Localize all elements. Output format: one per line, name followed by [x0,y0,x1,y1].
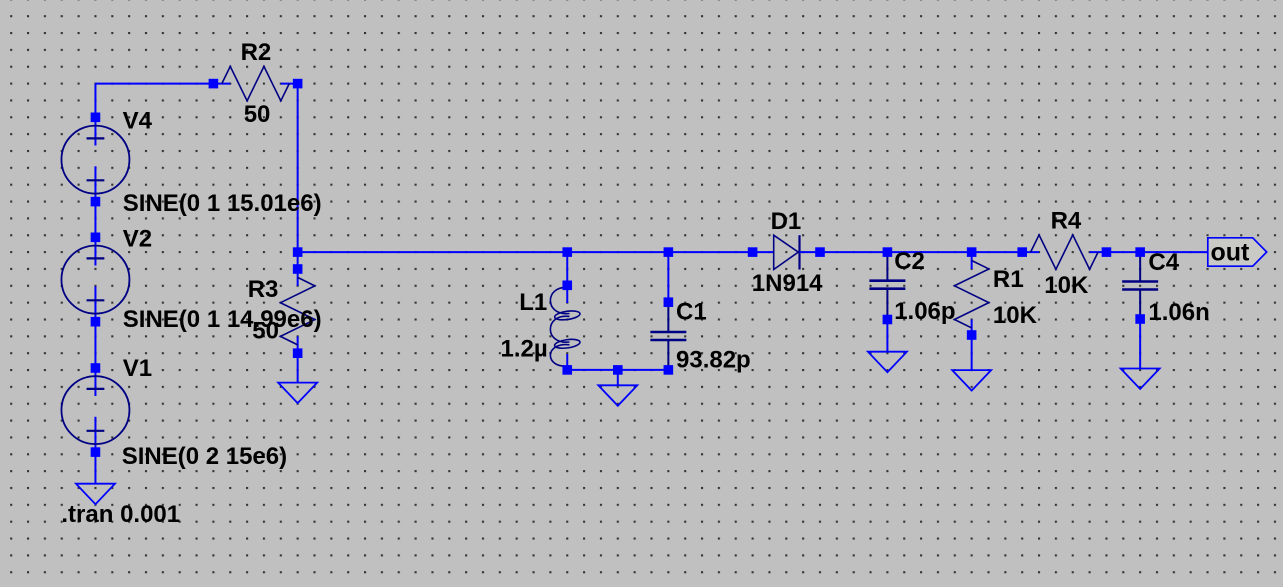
svg-text:SINE(0 1 15.01e6): SINE(0 1 15.01e6) [123,190,322,217]
svg-text:50: 50 [244,101,271,128]
svg-text:V2: V2 [123,226,152,253]
svg-text:V4: V4 [123,108,153,135]
svg-text:R3: R3 [248,276,279,303]
svg-text:R1: R1 [993,266,1024,293]
svg-text:1.06n: 1.06n [1148,299,1209,326]
svg-text:out: out [1211,239,1251,267]
svg-text:1.06p: 1.06p [894,298,955,325]
svg-text:93.82p: 93.82p [676,347,751,374]
svg-text:V1: V1 [123,355,152,382]
svg-text:1N914: 1N914 [752,270,823,297]
svg-text:C4: C4 [1148,249,1179,276]
svg-text:L1: L1 [519,289,547,316]
svg-text:.tran 0.001: .tran 0.001 [61,501,180,528]
svg-text:10K: 10K [993,302,1038,329]
svg-text:C1: C1 [676,299,707,326]
svg-text:C2: C2 [894,248,925,275]
svg-text:R2: R2 [241,39,272,66]
svg-text:R4: R4 [1051,208,1082,235]
svg-text:SINE(0 1 14.99e6): SINE(0 1 14.99e6) [123,306,322,333]
svg-text:1.2µ: 1.2µ [501,336,548,363]
svg-text:SINE(0 2 15e6): SINE(0 2 15e6) [122,443,287,470]
svg-text:50: 50 [252,318,279,345]
svg-text:D1: D1 [771,208,802,235]
svg-text:10K: 10K [1044,272,1089,299]
